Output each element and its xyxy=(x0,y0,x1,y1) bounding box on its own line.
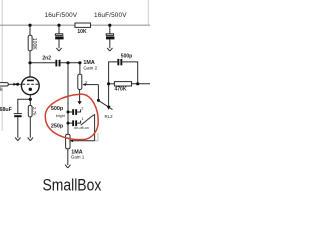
svg-text:RL2: RL2 xyxy=(105,114,114,119)
svg-text:2.7k: 2.7k xyxy=(32,107,37,116)
svg-text:100K: 100K xyxy=(31,38,37,51)
svg-text:on-off-on: on-off-on xyxy=(74,126,89,130)
svg-text:16uF/500V: 16uF/500V xyxy=(94,12,127,19)
svg-text:Gain 1: Gain 1 xyxy=(71,155,85,160)
svg-text:470K: 470K xyxy=(115,87,127,93)
svg-text:500p: 500p xyxy=(51,106,64,112)
svg-text:Gain 2: Gain 2 xyxy=(83,65,97,70)
svg-text:10K: 10K xyxy=(77,29,87,35)
svg-text:250p: 250p xyxy=(51,123,64,129)
svg-text:68uF: 68uF xyxy=(0,107,13,113)
svg-text:bright: bright xyxy=(56,114,65,118)
svg-text:SmallBox: SmallBox xyxy=(43,175,102,194)
svg-text:2n2: 2n2 xyxy=(42,55,51,61)
svg-text:16uF/500V: 16uF/500V xyxy=(45,12,78,19)
svg-text:2: 2 xyxy=(81,106,83,110)
svg-text:1: 1 xyxy=(82,117,84,121)
svg-text:500p: 500p xyxy=(121,54,132,60)
